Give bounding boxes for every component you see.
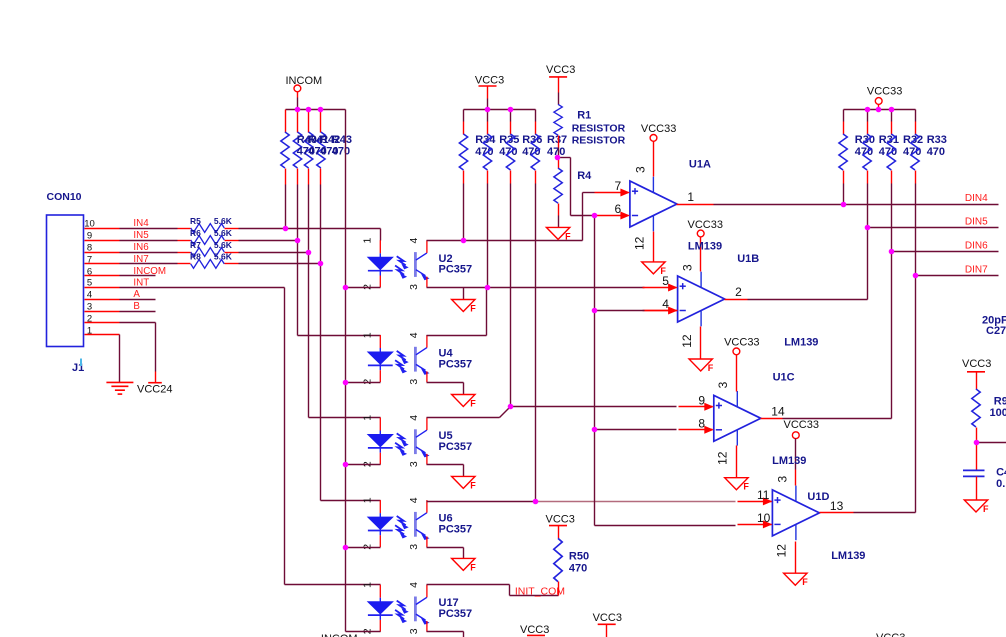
svg-text:INIT_COM: INIT_COM bbox=[515, 585, 565, 597]
net label IN7 bbox=[133, 254, 148, 265]
svg-text:U1B: U1B bbox=[737, 253, 759, 265]
net label A bbox=[133, 289, 140, 300]
wire pin2 to VCC24 bbox=[120, 323, 156, 383]
op-amp U1D LM139 bbox=[738, 486, 844, 541]
svg-text:470: 470 bbox=[569, 563, 587, 575]
net label DIN6 bbox=[965, 241, 988, 252]
svg-text:LM139: LM139 bbox=[831, 550, 865, 562]
junction INCOM/U5 pin2 bbox=[343, 462, 349, 468]
svg-text:5.6K: 5.6K bbox=[214, 216, 233, 226]
net label INCOM bbox=[133, 266, 166, 277]
wire IN7 column to U6 pin1 bbox=[321, 264, 381, 501]
junction ref/U1B pin4 bbox=[592, 308, 598, 314]
svg-text:3: 3 bbox=[716, 381, 730, 388]
net label DIN7 bbox=[965, 264, 988, 275]
svg-text:C27: C27 bbox=[986, 325, 1006, 337]
svg-text:100: 100 bbox=[990, 407, 1006, 419]
resistor R50 470 with VCC3 bbox=[546, 514, 590, 596]
U2 pin number labels bbox=[361, 238, 420, 290]
resistor R40 470 bbox=[281, 110, 289, 229]
wire U1C pin9 input bbox=[511, 406, 677, 408]
power symbol VCC3 bottom right bbox=[876, 632, 905, 637]
label U1D bbox=[807, 491, 829, 503]
power port VCC33 for U1B bbox=[680, 219, 723, 272]
wire U1D output riser to DIN7 bbox=[820, 276, 999, 513]
resistor R37 470 bbox=[531, 110, 567, 184]
svg-text:U1C: U1C bbox=[773, 371, 795, 383]
svg-text:4: 4 bbox=[408, 332, 420, 338]
ground symbol at J1 pin1 bbox=[106, 382, 133, 394]
J1 pin 1 wire stub bbox=[85, 325, 120, 336]
svg-text:5.6K: 5.6K bbox=[214, 228, 233, 238]
ground F below U1A pin12 bbox=[633, 232, 667, 276]
wire R9/C4 node to right edge bbox=[977, 443, 1006, 470]
svg-text:VCC33: VCC33 bbox=[641, 123, 676, 135]
svg-text:VCC33: VCC33 bbox=[688, 219, 723, 231]
U4 pin3 wire to ground bbox=[427, 383, 464, 395]
svg-text:5.6K: 5.6K bbox=[214, 252, 233, 262]
wire IN4 to column and U2 bbox=[239, 229, 381, 241]
svg-text:R8: R8 bbox=[190, 252, 201, 262]
U17 pin4 row to INIT_COM bbox=[427, 585, 559, 596]
net label IN4 bbox=[133, 218, 149, 229]
svg-text:R35: R35 bbox=[499, 134, 519, 146]
op-amp U1A LM139 bbox=[595, 177, 695, 232]
J1 pin 7 wire stub bbox=[85, 254, 120, 265]
power port VCC33 for U1C bbox=[716, 336, 818, 391]
svg-text:12: 12 bbox=[775, 544, 789, 558]
svg-text:IN6: IN6 bbox=[133, 242, 149, 253]
optocoupler U5 PC357 bbox=[368, 418, 472, 465]
svg-text:10: 10 bbox=[84, 219, 95, 230]
svg-text:1: 1 bbox=[687, 190, 694, 204]
junction VCC33 bus/R32 bbox=[889, 107, 895, 113]
cyan tick artifact near J1 bbox=[80, 359, 82, 367]
svg-text:3: 3 bbox=[633, 166, 647, 173]
svg-text:R7: R7 bbox=[190, 240, 201, 250]
svg-text:R4: R4 bbox=[577, 170, 592, 182]
wire VCC3 bus horizontal bbox=[464, 109, 536, 111]
wire A pin4 bbox=[120, 299, 156, 301]
wire R34 to U2 pin4 row bbox=[463, 184, 465, 241]
U2 pin4 row to riser bbox=[427, 193, 583, 241]
svg-text:12: 12 bbox=[633, 236, 647, 250]
svg-text:U1D: U1D bbox=[807, 491, 829, 503]
U4 pin number labels bbox=[361, 332, 420, 384]
svg-text:3: 3 bbox=[408, 284, 420, 290]
svg-text:6: 6 bbox=[87, 266, 92, 277]
resistor R1 RESISTOR bbox=[554, 104, 626, 157]
label U1B bbox=[737, 253, 759, 265]
resistor R35 470 bbox=[483, 110, 519, 184]
junction VCC3 bus/R35 bbox=[485, 107, 491, 113]
junction ref/U1C pin8 bbox=[592, 427, 598, 433]
net label INT bbox=[133, 277, 149, 288]
svg-text:IN4: IN4 bbox=[133, 218, 149, 229]
resistor R36 470 bbox=[506, 110, 542, 184]
wire INCOM bus horizontal bbox=[286, 109, 346, 111]
svg-text:12: 12 bbox=[680, 334, 694, 348]
U17 pin3 wire down bbox=[427, 632, 464, 637]
svg-text:3: 3 bbox=[408, 379, 420, 385]
U6 pin4 row to U1D pin11 (faded wire) bbox=[427, 501, 736, 503]
wire R37 to U1D pin11 net bbox=[535, 184, 537, 502]
svg-text:B: B bbox=[133, 301, 140, 312]
svg-text:1: 1 bbox=[361, 238, 373, 244]
svg-text:13: 13 bbox=[830, 499, 844, 513]
junction R31/DIN5 bbox=[865, 225, 871, 231]
wire IN4 row to R5 bbox=[120, 228, 178, 230]
wire U17 cathode and INCOM bottom label bbox=[321, 632, 381, 637]
svg-text:2: 2 bbox=[735, 285, 742, 299]
junction INCOM bus/R43 bbox=[318, 107, 324, 113]
J1 pin 3 wire stub bbox=[85, 302, 120, 313]
U6 pin number labels bbox=[361, 497, 420, 549]
svg-text:9: 9 bbox=[87, 231, 92, 242]
svg-text:R50: R50 bbox=[569, 551, 589, 563]
svg-text:2: 2 bbox=[361, 544, 373, 550]
svg-text:RESISTOR: RESISTOR bbox=[572, 134, 626, 146]
connector J1 CON10 body bbox=[47, 215, 84, 347]
J1 pin 2 wire stub bbox=[85, 313, 120, 324]
junction IN4/R40 bbox=[283, 226, 289, 232]
resistor R43 470 bbox=[317, 110, 325, 264]
wire IN7 row to R8 bbox=[120, 263, 178, 265]
svg-text:5: 5 bbox=[662, 274, 669, 288]
resistor R9 100 bbox=[972, 389, 1006, 443]
wire R36 to U1C pin9 net bbox=[510, 184, 512, 407]
wire R31 to DIN5 bbox=[867, 184, 869, 228]
svg-text:C4: C4 bbox=[996, 467, 1006, 479]
ground F below U6 bbox=[452, 558, 477, 572]
power port VCC33 for U1D bbox=[772, 419, 819, 485]
label CON10 bbox=[47, 191, 82, 203]
svg-text:DIN4: DIN4 bbox=[965, 193, 988, 204]
ground F below U1B pin12 bbox=[680, 327, 714, 374]
net label B bbox=[133, 301, 140, 312]
resistor R4 bbox=[554, 158, 592, 228]
ground F below U1C pin12 bbox=[716, 446, 750, 492]
junction R32/DIN6 bbox=[889, 249, 895, 255]
junction R36/U1C pin9 net bbox=[508, 404, 514, 410]
svg-text:R33: R33 bbox=[927, 134, 947, 146]
capacitor C4 bbox=[963, 467, 1006, 501]
svg-text:U1A: U1A bbox=[689, 159, 711, 171]
J1 pin 6 wire stub bbox=[85, 266, 120, 277]
svg-text:3: 3 bbox=[408, 628, 420, 634]
wire R30 to DIN4 bbox=[843, 184, 845, 205]
svg-text:VCC3: VCC3 bbox=[520, 624, 549, 636]
svg-text:6: 6 bbox=[615, 202, 622, 216]
power symbol VCC3 right bbox=[962, 358, 991, 390]
power symbol VCC3 above R1 bbox=[546, 64, 575, 104]
svg-text:IN5: IN5 bbox=[133, 230, 149, 241]
wire IN5 row to R6 bbox=[120, 240, 178, 242]
junction VCC3 bus/R36 bbox=[508, 107, 514, 113]
wire IN7 to column bbox=[239, 263, 321, 265]
wire reference column to comparator minus inputs bbox=[595, 216, 736, 526]
junction R35/U1B pin5 net bbox=[485, 285, 491, 291]
J1 pin 8 wire stub bbox=[85, 243, 120, 254]
junction IN7/R43 bbox=[318, 261, 324, 267]
optocoupler U17 PC357 bbox=[368, 585, 472, 632]
power port VCC33 above R30-R33 bbox=[867, 86, 902, 110]
net label IN5 bbox=[133, 230, 149, 241]
svg-text:3: 3 bbox=[680, 264, 694, 271]
svg-text:R9: R9 bbox=[994, 396, 1006, 408]
junction INCOM/U2 pin2 bbox=[343, 285, 349, 291]
wire R1/R4 junction to U1A pin6 bbox=[559, 158, 595, 216]
svg-text:1: 1 bbox=[361, 582, 373, 588]
svg-text:VCC33: VCC33 bbox=[867, 86, 902, 98]
label U1C bbox=[773, 371, 795, 383]
svg-text:PC357: PC357 bbox=[439, 608, 473, 620]
svg-text:1: 1 bbox=[361, 332, 373, 338]
resistor R6 5.6K bbox=[178, 228, 239, 245]
junction R33/DIN7 bbox=[913, 273, 919, 279]
resistor R42 470 bbox=[304, 110, 312, 253]
svg-text:VCC33: VCC33 bbox=[784, 419, 819, 431]
svg-text:CON10: CON10 bbox=[47, 191, 82, 203]
wire INT pin5 to bend bbox=[120, 287, 285, 289]
svg-text:PC357: PC357 bbox=[439, 441, 473, 453]
svg-text:4: 4 bbox=[662, 297, 669, 311]
wire R32 to DIN6 bbox=[891, 184, 893, 252]
junction R1/R4 divider bbox=[555, 155, 561, 161]
svg-text:3: 3 bbox=[87, 302, 92, 313]
svg-text:1: 1 bbox=[87, 325, 92, 336]
J1 pin 4 wire stub bbox=[85, 290, 120, 301]
wire U1B output riser to DIN5 bbox=[725, 228, 999, 300]
resistor R34 470 bbox=[459, 110, 496, 184]
svg-text:VCC3: VCC3 bbox=[546, 514, 575, 526]
resistor R41 470 bbox=[293, 110, 301, 241]
svg-text:LM139: LM139 bbox=[784, 336, 818, 348]
svg-text:VCC3: VCC3 bbox=[876, 632, 905, 637]
power symbol VCC24 bbox=[137, 383, 172, 396]
junction INCOM/U6 pin2 bbox=[343, 545, 349, 551]
svg-text:DIN6: DIN6 bbox=[965, 241, 988, 252]
svg-text:INT: INT bbox=[133, 277, 149, 288]
svg-text:PC357: PC357 bbox=[439, 264, 473, 276]
net label IN6 bbox=[133, 242, 149, 253]
U17 pin number labels bbox=[361, 582, 420, 634]
svg-text:3: 3 bbox=[775, 476, 789, 483]
svg-text:7: 7 bbox=[615, 179, 622, 193]
ground F below R4 bbox=[546, 227, 571, 241]
label U1A bbox=[689, 159, 711, 171]
svg-text:INCOM: INCOM bbox=[321, 633, 358, 637]
label C27 20pF bbox=[982, 315, 1006, 338]
resistor R8 5.6K bbox=[178, 252, 239, 269]
optocoupler U4 PC357 bbox=[368, 335, 472, 382]
svg-text:RESISTOR: RESISTOR bbox=[572, 123, 626, 135]
svg-text:10: 10 bbox=[757, 511, 771, 525]
wire U1C pin8 input bbox=[595, 429, 677, 431]
svg-text:VCC24: VCC24 bbox=[137, 383, 172, 395]
svg-text:14: 14 bbox=[771, 405, 785, 419]
U5 pin4 row with diagonal to U1C pin9 net bbox=[427, 407, 511, 418]
svg-text:2: 2 bbox=[361, 379, 373, 385]
junction INCOM bus/R41 bbox=[295, 107, 301, 113]
svg-text:DIN7: DIN7 bbox=[965, 264, 988, 275]
svg-text:R1: R1 bbox=[577, 110, 591, 122]
net label INIT_COM bbox=[515, 585, 565, 597]
svg-text:R5: R5 bbox=[190, 216, 201, 226]
svg-text:4: 4 bbox=[87, 290, 92, 301]
resistor R32 470 bbox=[887, 110, 923, 184]
J1 pin 10 wire stub bbox=[84, 219, 119, 230]
svg-text:4: 4 bbox=[408, 582, 420, 588]
net label DIN4 bbox=[965, 193, 988, 204]
label J1 bbox=[72, 362, 84, 374]
ground F below U2 bbox=[452, 300, 477, 314]
U4 cathode wire to INCOM bus bbox=[346, 382, 381, 384]
svg-text:PC357: PC357 bbox=[439, 524, 473, 536]
svg-text:7: 7 bbox=[87, 254, 92, 265]
junction IN6/R42 bbox=[306, 250, 312, 256]
svg-text:R37: R37 bbox=[547, 134, 567, 146]
svg-text:1: 1 bbox=[361, 415, 373, 421]
junction VCC33 bus/R31 bbox=[865, 107, 871, 113]
wire VCC33 bus horizontal bbox=[844, 109, 916, 111]
svg-text:4: 4 bbox=[408, 238, 420, 244]
svg-text:3: 3 bbox=[408, 461, 420, 467]
resistor R30 470 bbox=[839, 110, 875, 184]
net label DIN5 bbox=[965, 216, 988, 227]
U6 cathode wire to INCOM bus bbox=[346, 547, 381, 549]
wire pin1 to ground bbox=[119, 335, 121, 383]
J1 pin 9 wire stub bbox=[85, 231, 120, 242]
svg-text:9: 9 bbox=[698, 393, 705, 407]
wire U1B pin4 input bbox=[595, 310, 678, 312]
wire IN5 to column bbox=[239, 240, 298, 242]
wire U1A output to DIN4 bbox=[677, 204, 999, 206]
svg-text:VCC3: VCC3 bbox=[546, 64, 575, 76]
wire IN6 to column bbox=[239, 252, 309, 254]
wire IN5 column to U4 pin1 bbox=[298, 241, 381, 336]
power port INCOM top bbox=[286, 75, 323, 110]
wire B pin3 bbox=[120, 311, 156, 313]
svg-text:DIN5: DIN5 bbox=[965, 216, 988, 227]
power port VCC33 for U1A bbox=[633, 123, 676, 177]
junction R34/U2 pin4 bbox=[461, 238, 467, 244]
power symbol VCC3 above R34-R37 bbox=[475, 75, 504, 110]
svg-text:8: 8 bbox=[87, 243, 92, 254]
U5 cathode wire to INCOM bus bbox=[346, 464, 381, 466]
svg-text:R6: R6 bbox=[190, 228, 201, 238]
svg-text:VCC33: VCC33 bbox=[724, 336, 759, 348]
svg-text:4: 4 bbox=[408, 415, 420, 421]
resistor R7 5.6K bbox=[178, 240, 239, 257]
ground F below U1D pin12 bbox=[775, 542, 809, 588]
svg-text:4: 4 bbox=[408, 497, 420, 503]
svg-text:J1: J1 bbox=[72, 362, 84, 374]
resistor R33 470 bbox=[911, 110, 947, 184]
U5 pin3 wire to ground bbox=[427, 465, 464, 477]
junction INCOM/U4 pin2 bbox=[343, 380, 349, 386]
svg-text:INCOM: INCOM bbox=[286, 75, 323, 87]
svg-text:1: 1 bbox=[361, 497, 373, 503]
wire U1A pin7 input bbox=[583, 192, 595, 194]
svg-text:LM139: LM139 bbox=[772, 455, 806, 467]
svg-text:470: 470 bbox=[927, 146, 945, 158]
op-amp U1B LM139 bbox=[643, 272, 743, 327]
svg-text:2: 2 bbox=[87, 313, 92, 324]
wire U1C output riser to DIN6 bbox=[761, 252, 999, 419]
svg-text:PC357: PC357 bbox=[439, 358, 473, 370]
ground F below U5 bbox=[452, 476, 477, 490]
svg-text:VCC3: VCC3 bbox=[962, 358, 991, 370]
optocoupler U2 PC357 bbox=[368, 240, 472, 287]
label LM139 bottom right bbox=[831, 550, 865, 562]
op-amp U1C LM139 bbox=[679, 391, 785, 446]
labels R40-R43 values bbox=[297, 134, 352, 158]
U2 cathode wire to INCOM bus bbox=[346, 287, 381, 289]
wire INCOM cathode bus vertical bbox=[345, 110, 347, 632]
svg-text:5.6K: 5.6K bbox=[214, 240, 233, 250]
svg-text:5: 5 bbox=[87, 278, 92, 289]
U5 pin number labels bbox=[361, 415, 420, 467]
wire INT column to U17 pin1 bbox=[285, 288, 381, 585]
U6 pin3 wire to ground bbox=[427, 548, 464, 559]
svg-text:8: 8 bbox=[698, 416, 705, 430]
svg-text:R43: R43 bbox=[332, 134, 352, 146]
junction R30/DIN4 bbox=[841, 202, 847, 208]
svg-text:470: 470 bbox=[332, 146, 350, 158]
junction R9/C4 node bbox=[974, 440, 980, 446]
svg-text:12: 12 bbox=[716, 451, 730, 465]
svg-text:0.: 0. bbox=[996, 478, 1005, 490]
svg-text:3: 3 bbox=[408, 544, 420, 550]
svg-text:11: 11 bbox=[757, 488, 770, 502]
junction R37/U1D pin11 net bbox=[533, 499, 539, 505]
J1 pin 5 wire stub bbox=[85, 278, 120, 289]
junction ref/U1A pin6 bbox=[592, 213, 598, 219]
U4 pin4 row riser to U1B pin5 net bbox=[427, 288, 487, 336]
ground F below U4 bbox=[452, 395, 477, 409]
wire R33 to DIN7 bbox=[915, 184, 917, 276]
junction IN5/R41 bbox=[295, 238, 301, 244]
wire INCOM pin6 bbox=[120, 275, 156, 277]
svg-text:VCC3: VCC3 bbox=[475, 75, 504, 87]
power symbol VCC3 bottom left bbox=[520, 624, 549, 636]
wire IN6 column to U5 pin1 bbox=[309, 253, 381, 418]
junction VCC33 bus drop bbox=[876, 107, 882, 113]
junction INCOM bus/R42 bbox=[306, 107, 312, 113]
resistor R31 470 bbox=[863, 110, 899, 184]
wire IN6 row to R7 bbox=[120, 252, 178, 254]
svg-text:VCC3: VCC3 bbox=[593, 612, 622, 624]
svg-text:LM139: LM139 bbox=[688, 240, 722, 252]
ground F below C4 bbox=[964, 500, 989, 514]
power symbol VCC3 bottom middle bbox=[593, 612, 622, 637]
optocoupler U6 PC357 bbox=[368, 500, 472, 547]
resistor R5 5.6K bbox=[178, 216, 239, 233]
U2 pin3 row with ground, to U1B pin5 bbox=[427, 288, 645, 300]
wire R35 to U1B pin5 net bbox=[487, 184, 489, 288]
svg-text:A: A bbox=[133, 289, 140, 300]
